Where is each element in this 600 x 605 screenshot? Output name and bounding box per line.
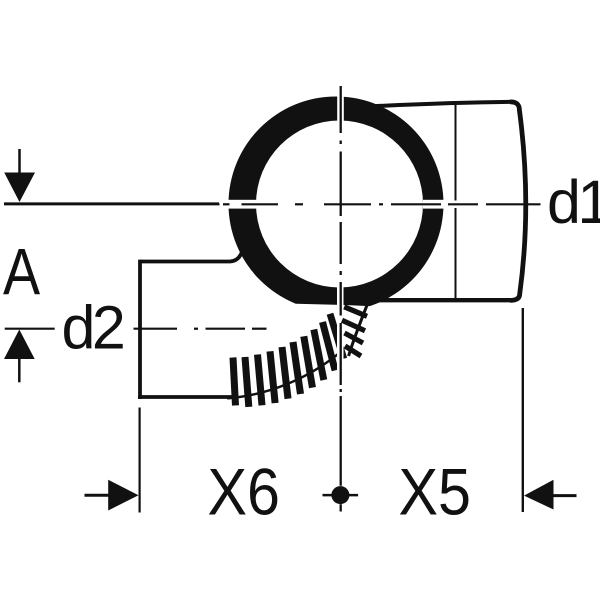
- body bottom line: [366, 298, 512, 302]
- d2 up arrow: [5, 328, 55, 330]
- centerline casings: [228, 200, 257, 209]
- dimension dot: [331, 486, 349, 504]
- left spigot top line: [140, 252, 242, 262]
- X5 extension line: [522, 308, 524, 512]
- branch right contour: [349, 300, 370, 357]
- svg-text:X6: X6: [208, 456, 280, 529]
- right ribs overlay: [344, 307, 367, 317]
- body right edge: [510, 102, 526, 301]
- socket depth line: [455, 104, 457, 299]
- X5 arrow: [553, 494, 577, 497]
- A dim down arrow: [18, 149, 21, 173]
- horizontal centerline d1: [4, 203, 220, 205]
- X6 arrow: [85, 494, 111, 497]
- ribs: [230, 357, 240, 405]
- body top line: [366, 102, 511, 107]
- X6 extension line: [139, 408, 141, 513]
- left spigot left line: [138, 260, 142, 399]
- main ring: [228, 96, 443, 311]
- d2 centerline: [134, 328, 178, 330]
- svg-text:A: A: [3, 235, 41, 308]
- left spigot bottom line: [138, 395, 232, 399]
- svg-text:d2: d2: [62, 294, 126, 362]
- vertical centerline: [340, 86, 342, 133]
- svg-text:X5: X5: [399, 456, 471, 529]
- ring bottom trim: [296, 304, 377, 316]
- branch outer contour: [227, 350, 342, 398]
- svg-text:d1: d1: [547, 168, 600, 236]
